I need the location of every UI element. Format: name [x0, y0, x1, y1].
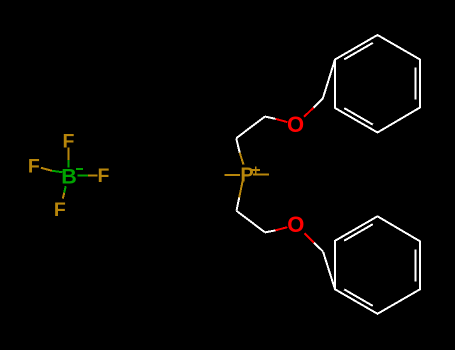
charge plus on P (vertical bar)	[255, 166, 257, 174]
bond B-Fright (F half)	[88, 175, 98, 177]
bond CH2b'-O2 (O half)	[275, 227, 287, 230]
bond CH2a-CH2b top chain	[236, 117, 265, 139]
top ring inner double bond A-B	[344, 43, 373, 60]
bond O1-CH2c (C half)	[314, 99, 323, 108]
bond CH2b-O1 (O half)	[276, 119, 288, 122]
top benzene ring outline	[335, 35, 420, 133]
bond P-CH3 right stub	[253, 174, 269, 176]
bond B-Fbottom (F half)	[63, 193, 64, 199]
bond P-CH2a up (C half)	[236, 138, 240, 152]
bond B-Fleft (F half)	[41, 168, 52, 171]
bond B-Ftop (B half)	[68, 160, 70, 168]
svg-text:O: O	[287, 112, 304, 137]
bond O2-CH2c' (O half)	[304, 233, 314, 243]
bottom benzene ring outline	[335, 216, 420, 313]
charge plus on P (horizontal bar)	[252, 169, 260, 171]
bottom ring inner double bond E'-F'	[344, 224, 373, 241]
bond CH2a'-CH2b' bottom chain	[237, 211, 266, 233]
bond P-CH2a' down (C half)	[237, 198, 240, 211]
top ring inner double bond E-F	[344, 108, 373, 125]
charge minus on B	[76, 168, 83, 170]
top ring inner double bond C-D	[415, 68, 417, 100]
svg-text:F: F	[28, 156, 40, 178]
bottom ring inner double bond C'-D'	[415, 249, 417, 281]
bond B-Fbottom (B half)	[64, 186, 66, 193]
svg-text:F: F	[63, 130, 75, 152]
bottom ring inner double bond A'-B'	[344, 289, 373, 306]
bond P-CH3 left stub	[224, 174, 239, 176]
svg-text:F: F	[54, 199, 66, 221]
bond B-Fright (B half)	[78, 175, 89, 177]
bond CH2c-ipso top ring	[323, 60, 335, 99]
bond CH2b-O1 (C half)	[265, 117, 276, 119]
bond CH2b'-O2 (C half)	[265, 230, 275, 232]
bond B-Fleft (B half)	[52, 171, 62, 172]
svg-text:O: O	[287, 212, 304, 237]
anion BF4- : bond B-Ftop (F half)	[68, 148, 70, 161]
svg-text:B: B	[61, 164, 77, 188]
bond CH2c'-ipso bottom ring	[323, 252, 335, 290]
svg-text:F: F	[98, 165, 110, 187]
bond P-CH2a up (P half)	[240, 153, 244, 165]
bond O2-CH2c' (C half)	[314, 243, 323, 252]
bond O1-CH2c (O half)	[304, 108, 314, 117]
bond P-CH2a' down (P half)	[239, 181, 242, 197]
